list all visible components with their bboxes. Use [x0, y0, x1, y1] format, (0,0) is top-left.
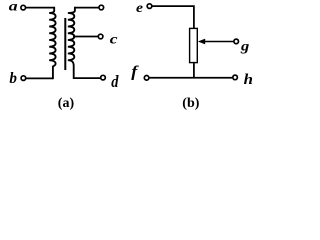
- wiper arrowhead: [198, 39, 205, 45]
- terminal f: [144, 76, 149, 81]
- wire secondary top: [75, 7, 98, 9]
- terminal c: [98, 34, 103, 39]
- transformer primary winding: [49, 8, 55, 79]
- svg-text:e: e: [136, 1, 143, 16]
- svg-text:g: g: [240, 38, 250, 54]
- transformer core: [64, 18, 66, 70]
- svg-text:h: h: [244, 72, 253, 88]
- wire potentiometer bottom: [193, 63, 195, 78]
- wire primary bottom to b: [27, 77, 53, 79]
- svg-text:d: d: [111, 73, 119, 91]
- terminal e: [147, 4, 152, 9]
- svg-text:f: f: [131, 62, 139, 80]
- wire f to h: [150, 77, 232, 79]
- terminal a: [21, 5, 26, 10]
- wire e to potentiometer top: [153, 6, 194, 28]
- wiper arrow line: [204, 41, 234, 43]
- wire secondary bottom to d: [74, 77, 100, 79]
- terminal h: [233, 75, 238, 80]
- svg-text:b: b: [9, 70, 17, 87]
- terminal d: [101, 75, 106, 80]
- potentiometer body: [190, 28, 198, 62]
- terminal b: [21, 76, 26, 81]
- svg-text:(b): (b): [182, 96, 199, 111]
- wire a to primary top: [26, 7, 54, 9]
- terminal g: [234, 39, 239, 44]
- transformer secondary winding: [68, 8, 75, 79]
- terminal top-right: [99, 5, 104, 10]
- svg-text:a: a: [9, 0, 18, 14]
- svg-text:(a): (a): [58, 96, 75, 111]
- svg-text:c: c: [110, 32, 118, 47]
- wire center tap to c: [74, 36, 98, 38]
